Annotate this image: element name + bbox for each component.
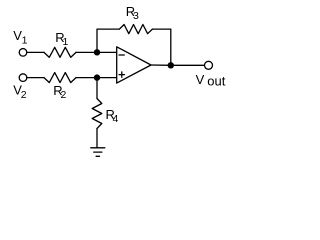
svg-text:1: 1 xyxy=(63,36,69,48)
label V2 xyxy=(13,83,26,102)
op-amp minus sign xyxy=(119,54,124,56)
svg-text:out: out xyxy=(207,74,225,89)
label V1 xyxy=(13,28,27,47)
terminal Vout xyxy=(205,61,213,69)
node output junction xyxy=(168,62,174,68)
node junction R1/R3 xyxy=(94,49,100,55)
wire V2 to R2 xyxy=(27,77,44,79)
label R1 xyxy=(55,30,68,48)
wire op-amp output xyxy=(151,64,204,66)
wire R3 to output node xyxy=(152,29,170,65)
svg-text:2: 2 xyxy=(21,89,27,101)
ground xyxy=(91,148,105,157)
op-amp plus sign xyxy=(119,72,124,77)
node junction R2/R4 xyxy=(94,74,100,80)
label R2 xyxy=(53,83,66,101)
svg-text:1: 1 xyxy=(22,35,28,47)
terminal V2 xyxy=(19,74,27,82)
op-amp U1 xyxy=(117,47,151,83)
label R4 xyxy=(106,107,119,125)
resistor R4 xyxy=(92,99,102,129)
wire V1 to R1 xyxy=(27,51,44,53)
wire R4 to ground xyxy=(96,129,98,148)
resistor R2 xyxy=(44,73,76,83)
svg-text:2: 2 xyxy=(61,89,67,101)
wire feedback left vertical and top xyxy=(97,29,119,52)
terminal V1 xyxy=(19,49,27,57)
svg-text:4: 4 xyxy=(113,113,119,125)
svg-text:3: 3 xyxy=(133,10,139,22)
wire R2 to op-amp non-inverting input xyxy=(76,77,117,79)
wire R1 to op-amp inverting input xyxy=(76,51,117,53)
wire R2 junction to R4 xyxy=(96,78,98,99)
label Vout xyxy=(196,72,226,89)
resistor R3 xyxy=(119,25,152,34)
svg-text:V: V xyxy=(196,72,205,87)
resistor R1 xyxy=(44,47,76,57)
label R3 xyxy=(126,4,139,22)
